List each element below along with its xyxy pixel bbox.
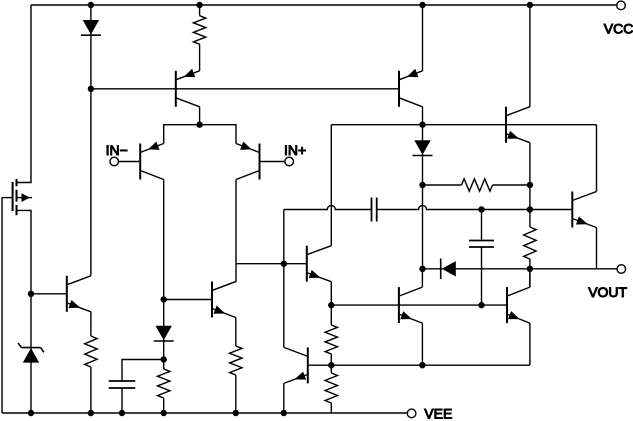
- svg-text:IN+: IN+: [284, 142, 306, 158]
- svg-text:IN−: IN−: [106, 142, 128, 158]
- svg-text:VEE: VEE: [424, 406, 452, 421]
- svg-text:VCC: VCC: [604, 21, 633, 37]
- svg-text:VOUT: VOUT: [588, 284, 627, 300]
